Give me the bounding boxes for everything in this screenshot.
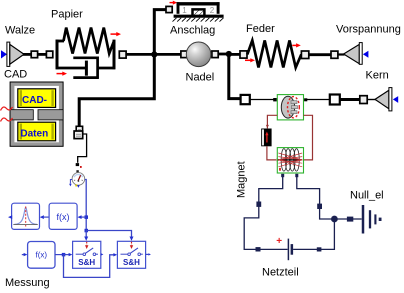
bypass wire under SH1 bbox=[64, 255, 114, 278]
red wire transducer left pin down bbox=[267, 115, 277, 128]
node dot transducer left pin bbox=[273, 98, 277, 101]
junction rail to fx1 bbox=[85, 215, 89, 219]
arrow into SH1 top bbox=[84, 237, 88, 241]
arrow into SH2 top bbox=[130, 237, 134, 241]
svg-text:Feder: Feder bbox=[246, 23, 275, 35]
wire junction up to Anschlag bbox=[154, 10, 166, 55]
svg-text:f(x): f(x) bbox=[57, 212, 70, 222]
ground hatching bbox=[173, 18, 224, 22]
svg-text:CAD-: CAD- bbox=[22, 95, 47, 106]
arrow into SH2 left bbox=[113, 253, 117, 256]
svg-text:2: 2 bbox=[210, 6, 215, 15]
svg-text:S&H: S&H bbox=[78, 258, 95, 267]
thin wire to Kern flange bbox=[307, 99, 331, 101]
red wire sensor to coil bbox=[267, 146, 276, 160]
filter block (bell curve) bbox=[12, 203, 40, 229]
pin marker left vertical bbox=[256, 202, 261, 207]
red arrow into coil bbox=[277, 158, 281, 161]
flange Kern big square bbox=[330, 95, 340, 105]
wire battery right to junction bbox=[293, 219, 334, 249]
pin marker ground wire bbox=[347, 217, 353, 222]
blue wire rail to SH1 top bbox=[85, 231, 87, 237]
flange Vorspannung.flange bbox=[331, 51, 338, 58]
svg-text:+: + bbox=[276, 236, 282, 247]
blue wire rail corner to SH2 top bbox=[86, 231, 131, 237]
mass Nadel (sphere) bbox=[186, 42, 211, 67]
flange Kern.flange bbox=[360, 96, 367, 104]
junction rail corner bbox=[85, 229, 89, 233]
wire junction to SH1 with arrow bbox=[64, 253, 73, 256]
wire Papier to Nadel bbox=[126, 53, 182, 56]
wire junction to ground bbox=[334, 218, 361, 220]
svg-text:1: 1 bbox=[182, 6, 187, 15]
wire flange to Papier bbox=[38, 53, 47, 56]
svg-text:Nadel: Nadel bbox=[186, 72, 215, 84]
wire to Vorspannung tip bbox=[338, 53, 345, 55]
pin marker right vertical bbox=[317, 204, 322, 209]
svg-text:Walze: Walze bbox=[5, 25, 35, 37]
svg-text:Netzteil: Netzteil bbox=[262, 267, 299, 279]
sample-hold block SH2 bbox=[117, 241, 145, 268]
junction node B bbox=[226, 51, 232, 57]
svg-text:Magnet: Magnet bbox=[236, 161, 248, 198]
flange Papier.flange_a bbox=[46, 51, 52, 58]
junction fx2 output bbox=[62, 253, 66, 257]
current sensor (black box) bbox=[261, 129, 271, 147]
wire Feder to Vorspannung bbox=[309, 53, 331, 56]
svg-text:Daten: Daten bbox=[20, 128, 48, 139]
coil Magnet (green box) bbox=[277, 148, 303, 173]
spring Feder bbox=[247, 40, 301, 67]
red tick gauge bbox=[80, 166, 82, 168]
yellow tick gauge bbox=[75, 185, 77, 187]
wire thick to Kern second flange bbox=[340, 98, 361, 101]
svg-text:S&H: S&H bbox=[123, 258, 140, 267]
transducer Magnet actuator (green box) bbox=[277, 95, 303, 120]
flange Papier.flange_b bbox=[119, 51, 126, 58]
wire junction B to Feder bbox=[229, 53, 240, 56]
source Walze bbox=[1, 42, 24, 66]
red arrow Papier bottom-left bbox=[57, 72, 68, 76]
sensor gauge bbox=[72, 170, 85, 185]
svg-text:Anschlag: Anschlag bbox=[170, 24, 215, 36]
red arrow Feder top-right bbox=[292, 43, 301, 47]
flange Feder.flange_a bbox=[240, 51, 247, 58]
flange big square (armature) bbox=[241, 95, 250, 104]
red arrow Papier top-right bbox=[111, 32, 122, 36]
pin marker battery right bbox=[317, 247, 322, 251]
spring-damper Papier bbox=[56, 28, 116, 79]
blue wire rail to fx1 with arrow bbox=[77, 215, 86, 219]
blue stub gauge bottom output bbox=[77, 185, 80, 188]
connector table output (double square) bbox=[74, 126, 83, 138]
pin marker battery left bbox=[256, 247, 261, 251]
force source Vorspannung bbox=[344, 43, 369, 65]
red squiggle lower bbox=[1, 118, 13, 122]
block f(x) upper bbox=[49, 203, 77, 229]
wire fx2 to junction bbox=[55, 254, 64, 256]
wire to Kern tip bbox=[367, 99, 376, 101]
red arrow tick on wire bbox=[266, 125, 269, 128]
pin coil right bbox=[295, 174, 298, 177]
stop Anschlag bbox=[173, 2, 224, 21]
wire coil right pin to junction bbox=[297, 177, 335, 220]
junction node A bbox=[151, 51, 157, 57]
flange Feder.flange_b bbox=[301, 51, 308, 59]
table CAD-Daten bbox=[10, 82, 63, 146]
thin wire connector to gauge bbox=[78, 134, 87, 163]
svg-text:f(x): f(x) bbox=[36, 251, 48, 260]
thin wire transducer flange to dot bbox=[250, 99, 274, 101]
blue wire gauge right output rail bbox=[85, 180, 86, 231]
flange Nadel.flange_b bbox=[212, 51, 218, 58]
flange Nadel.flange_a bbox=[181, 51, 187, 58]
battery Netzteil bbox=[276, 236, 293, 260]
svg-text:CAD: CAD bbox=[4, 69, 27, 81]
pin coil left bbox=[281, 174, 284, 177]
red wire transducer right pin to coil bbox=[304, 115, 313, 160]
arrow out of bell block left bbox=[8, 215, 12, 219]
wire junction down to sensor branch bbox=[79, 54, 154, 126]
stub into fx2 with arrow bbox=[22, 253, 28, 256]
output stub SH1 bbox=[101, 253, 104, 255]
svg-text:Null_el: Null_el bbox=[350, 190, 384, 202]
block f(x) lower bbox=[28, 242, 55, 269]
wire Walze to flange bbox=[23, 53, 32, 56]
svg-text:Kern: Kern bbox=[366, 70, 389, 82]
svg-text:Papier: Papier bbox=[51, 9, 83, 21]
wire Nadel to junction B bbox=[218, 53, 227, 56]
wire fx1 to bell with arrow bbox=[40, 215, 49, 219]
sample-hold block SH1 bbox=[73, 241, 101, 268]
node dot transducer right pin bbox=[304, 98, 307, 101]
flange gauge top bbox=[76, 163, 79, 166]
output stub SH2 bbox=[146, 253, 151, 255]
svg-text:Vorspannung: Vorspannung bbox=[336, 24, 401, 36]
junction node electrical bbox=[331, 216, 338, 223]
wire coil left pin to battery bbox=[244, 177, 287, 250]
flange Walze.flange_b bbox=[31, 51, 37, 58]
flange Anschlag.flange_a bbox=[166, 6, 172, 12]
svg-text:Messung: Messung bbox=[5, 277, 50, 289]
position source Kern bbox=[375, 88, 398, 111]
wire junction B down to transducer bbox=[229, 54, 241, 99]
ground Null_el bbox=[363, 205, 382, 234]
red squiggle upper bbox=[1, 107, 13, 111]
blue stub gauge left output bbox=[69, 180, 72, 187]
red arrow Feder bottom-left bbox=[245, 58, 255, 62]
red arrow Anschlag bbox=[170, 1, 178, 5]
